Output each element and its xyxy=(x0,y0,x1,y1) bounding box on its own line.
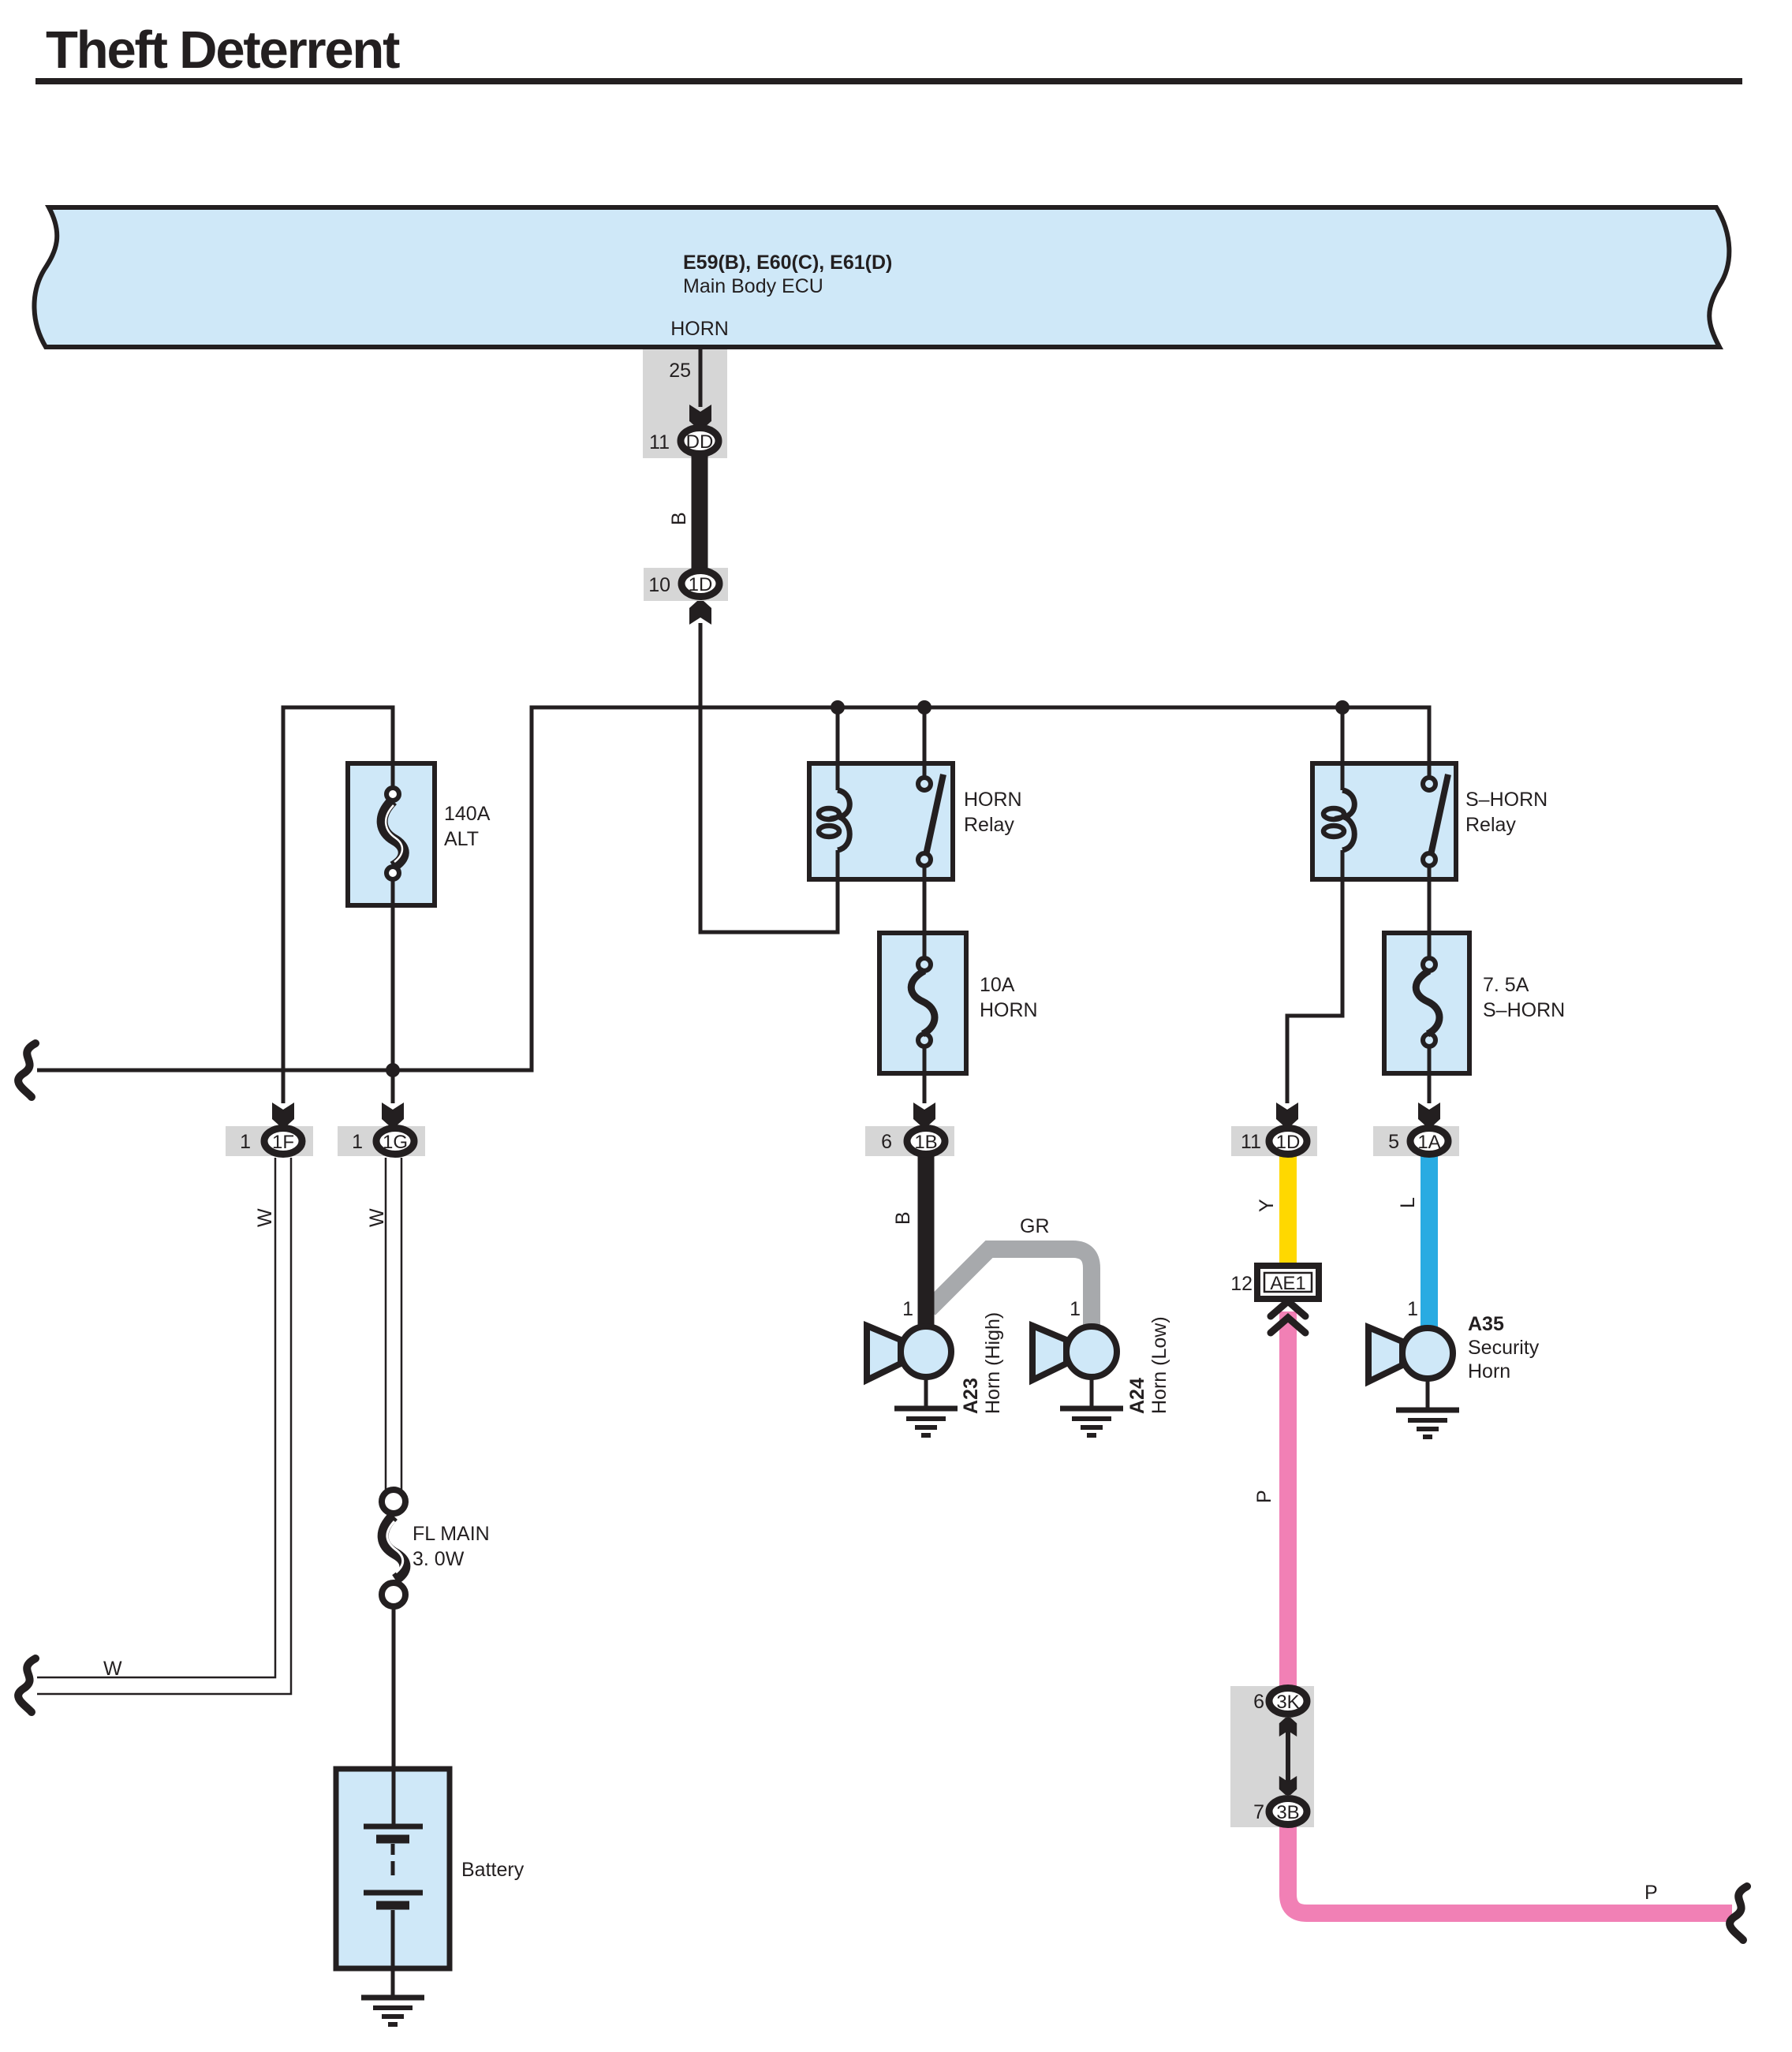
svg-text:1A: 1A xyxy=(1417,1132,1440,1153)
svg-text:B: B xyxy=(892,1211,914,1225)
svg-text:AE1: AE1 xyxy=(1270,1273,1305,1294)
svg-text:10A: 10A xyxy=(980,974,1015,996)
svg-text:Main Body ECU: Main Body ECU xyxy=(683,275,823,297)
connector AE1 box xyxy=(1257,1266,1319,1299)
ground horn A24 xyxy=(1060,1379,1123,1435)
wire 140A ALT to 1G xyxy=(391,879,395,1103)
svg-text:S–HORN: S–HORN xyxy=(1483,999,1565,1021)
connector 1A highlight box xyxy=(1373,1126,1459,1156)
torn end of W wire bottom left xyxy=(18,1658,35,1712)
svg-text:HORN: HORN xyxy=(670,318,729,340)
connector 1G highlight box xyxy=(338,1126,425,1156)
wire 10A fuse to 1B xyxy=(923,1047,927,1103)
double chevron below AE1 xyxy=(1271,1301,1305,1333)
wire S-HORN relay switch to 7.5A fuse xyxy=(1428,866,1432,958)
svg-text:B: B xyxy=(668,512,690,525)
torn end of W supply line xyxy=(18,1043,35,1097)
svg-text:L: L xyxy=(1397,1197,1419,1208)
svg-text:11: 11 xyxy=(1241,1131,1261,1153)
svg-text:1D: 1D xyxy=(689,574,713,595)
battery box xyxy=(336,1769,450,1968)
fuse 10A HORN box xyxy=(879,933,966,1073)
svg-text:1: 1 xyxy=(1070,1298,1081,1320)
junction dot S-HORN relay coil xyxy=(1335,700,1350,714)
svg-text:10: 10 xyxy=(648,574,670,596)
wire L (1A to security horn) xyxy=(1421,1156,1438,1333)
connector oval 1G xyxy=(376,1129,414,1155)
svg-text:12: 12 xyxy=(1230,1273,1253,1295)
svg-text:W: W xyxy=(254,1208,276,1227)
junction dot at ALT/W line xyxy=(386,1063,400,1077)
junction dot HORN relay coil xyxy=(831,700,845,714)
wire GR (Horn High to Horn Low) xyxy=(929,1249,1092,1325)
wire 7.5A fuse to 1A xyxy=(1428,1047,1432,1103)
svg-text:5: 5 xyxy=(1388,1131,1399,1153)
connector oval 1F xyxy=(264,1129,302,1155)
svg-text:1D: 1D xyxy=(1276,1132,1301,1153)
svg-text:1: 1 xyxy=(902,1298,913,1320)
svg-text:Relay: Relay xyxy=(1465,814,1516,836)
svg-text:1: 1 xyxy=(352,1131,363,1153)
svg-text:6: 6 xyxy=(881,1131,892,1153)
fusible link FL MAIN 3.0W xyxy=(382,1490,405,1606)
wire HORN relay switch to 10A fuse xyxy=(923,866,927,958)
svg-text:25: 25 xyxy=(669,360,691,382)
svg-text:A23: A23 xyxy=(960,1378,982,1414)
S-HORN relay box xyxy=(1312,763,1456,879)
connector oval 1B xyxy=(907,1129,945,1155)
ground horn A35 xyxy=(1396,1381,1459,1437)
wire ECU HORN pin xyxy=(699,347,703,407)
connector oval 1D(10) xyxy=(681,571,719,597)
wire P (3B to right edge) xyxy=(1288,1814,1732,1913)
svg-text:1F: 1F xyxy=(272,1132,294,1153)
svg-text:Relay: Relay xyxy=(964,814,1014,836)
svg-text:Horn (High): Horn (High) xyxy=(982,1312,1004,1414)
wire HORN relay switch feed xyxy=(923,707,927,778)
fusible link element 140A ALT xyxy=(383,788,404,879)
junction dot HORN relay switch xyxy=(917,700,931,714)
svg-text:S–HORN: S–HORN xyxy=(1465,789,1547,811)
ground battery xyxy=(361,1968,424,2024)
fuse 7.5A S-HORN box xyxy=(1384,933,1469,1073)
arrow into 1B xyxy=(913,1102,935,1126)
arrow into DD xyxy=(689,405,711,428)
connector 1F highlight box xyxy=(226,1126,313,1156)
svg-text:GR: GR xyxy=(1020,1215,1050,1237)
arrow into 1A xyxy=(1418,1102,1440,1126)
svg-text:Y: Y xyxy=(1256,1199,1278,1212)
fusible link 140A ALT box xyxy=(348,763,435,905)
ground horn A23 xyxy=(894,1379,958,1435)
battery cells xyxy=(364,1769,423,1968)
wire B thick (1B to Horn High) xyxy=(918,1156,935,1333)
svg-text:Security: Security xyxy=(1468,1337,1540,1359)
HORN relay coil xyxy=(819,790,849,850)
wire Y (1D to AE1) xyxy=(1279,1156,1297,1270)
wire S-HORN relay coil to 1D(11) xyxy=(1287,850,1342,1103)
svg-text:Theft Deterrent: Theft Deterrent xyxy=(46,21,400,80)
connector oval 3K xyxy=(1269,1688,1307,1714)
wire left bus 1F to 140A ALT xyxy=(283,707,393,1103)
arrow out of 1D(10) xyxy=(689,601,711,625)
wire W white (1G to FL MAIN) xyxy=(386,1158,401,1492)
svg-text:140A: 140A xyxy=(444,803,491,825)
arrow into 1D(11) xyxy=(1276,1102,1298,1126)
svg-text:P: P xyxy=(1253,1490,1275,1503)
HORN relay switch xyxy=(918,774,943,866)
svg-text:HORN: HORN xyxy=(964,789,1022,811)
svg-text:Battery: Battery xyxy=(461,1859,525,1881)
torn end of P wire right xyxy=(1730,1886,1747,1940)
connector oval 1A xyxy=(1410,1129,1448,1155)
svg-text:P: P xyxy=(1645,1882,1658,1904)
svg-text:1B: 1B xyxy=(914,1132,937,1153)
wire W supply bus xyxy=(37,707,1429,1070)
connector 1B highlight box xyxy=(865,1126,954,1156)
connector 1D(11) highlight box xyxy=(1231,1126,1317,1156)
svg-text:1: 1 xyxy=(240,1131,251,1153)
arrow into 1G xyxy=(382,1102,404,1126)
svg-text:A24: A24 xyxy=(1126,1378,1148,1414)
svg-text:FL MAIN: FL MAIN xyxy=(413,1523,490,1545)
wire FL MAIN to battery xyxy=(392,1606,396,1769)
svg-text:HORN: HORN xyxy=(980,999,1038,1021)
main body ECU band xyxy=(34,207,1729,347)
connector oval DD xyxy=(681,428,719,454)
S-HORN relay switch xyxy=(1423,774,1448,866)
svg-text:1G: 1G xyxy=(383,1132,408,1153)
svg-text:3K: 3K xyxy=(1276,1692,1299,1713)
connector 1D(10) highlight box xyxy=(644,568,728,601)
svg-text:3B: 3B xyxy=(1276,1802,1299,1823)
arrow into 1F xyxy=(272,1102,294,1126)
svg-text:6: 6 xyxy=(1253,1691,1264,1713)
svg-text:11: 11 xyxy=(649,431,670,453)
pin 25 highlight box xyxy=(643,349,727,458)
horn A23 Horn (High) xyxy=(867,1326,951,1380)
wire HORN relay coil feed xyxy=(836,707,840,790)
svg-text:7. 5A: 7. 5A xyxy=(1483,974,1529,996)
fuse element 10A HORN xyxy=(911,958,935,1047)
svg-text:Horn: Horn xyxy=(1468,1360,1510,1382)
HORN relay box xyxy=(809,763,953,879)
double arrow between 3K and 3B xyxy=(1279,1718,1297,1795)
svg-text:W: W xyxy=(103,1658,122,1680)
svg-text:Horn (Low): Horn (Low) xyxy=(1148,1316,1170,1414)
wire S-HORN relay coil feed xyxy=(1341,707,1345,790)
title underline xyxy=(35,78,1742,84)
svg-text:1: 1 xyxy=(1407,1298,1418,1320)
horn A35 Security Horn xyxy=(1368,1327,1453,1382)
wire 1D to HORN relay coil xyxy=(700,623,838,932)
svg-text:E59(B), E60(C), E61(D): E59(B), E60(C), E61(D) xyxy=(683,252,892,274)
svg-text:ALT: ALT xyxy=(444,828,479,850)
wire P (AE1 to 3K) xyxy=(1279,1311,1297,1688)
svg-text:W: W xyxy=(366,1208,388,1227)
svg-text:DD: DD xyxy=(686,431,714,453)
fuse element 7.5A S-HORN xyxy=(1416,958,1439,1047)
connector 3K/3B highlight box xyxy=(1230,1686,1314,1827)
svg-text:7: 7 xyxy=(1253,1801,1264,1823)
svg-text:A35: A35 xyxy=(1468,1313,1504,1335)
S-HORN relay coil xyxy=(1323,790,1354,850)
horn A24 Horn (Low) xyxy=(1032,1326,1117,1380)
connector oval 1D(11) xyxy=(1269,1129,1307,1155)
wire B thick (DD to 1D) xyxy=(692,454,708,569)
connector oval 3B xyxy=(1269,1799,1307,1825)
wire W white (1F to left edge) xyxy=(37,1158,291,1694)
svg-text:3. 0W: 3. 0W xyxy=(413,1548,465,1570)
